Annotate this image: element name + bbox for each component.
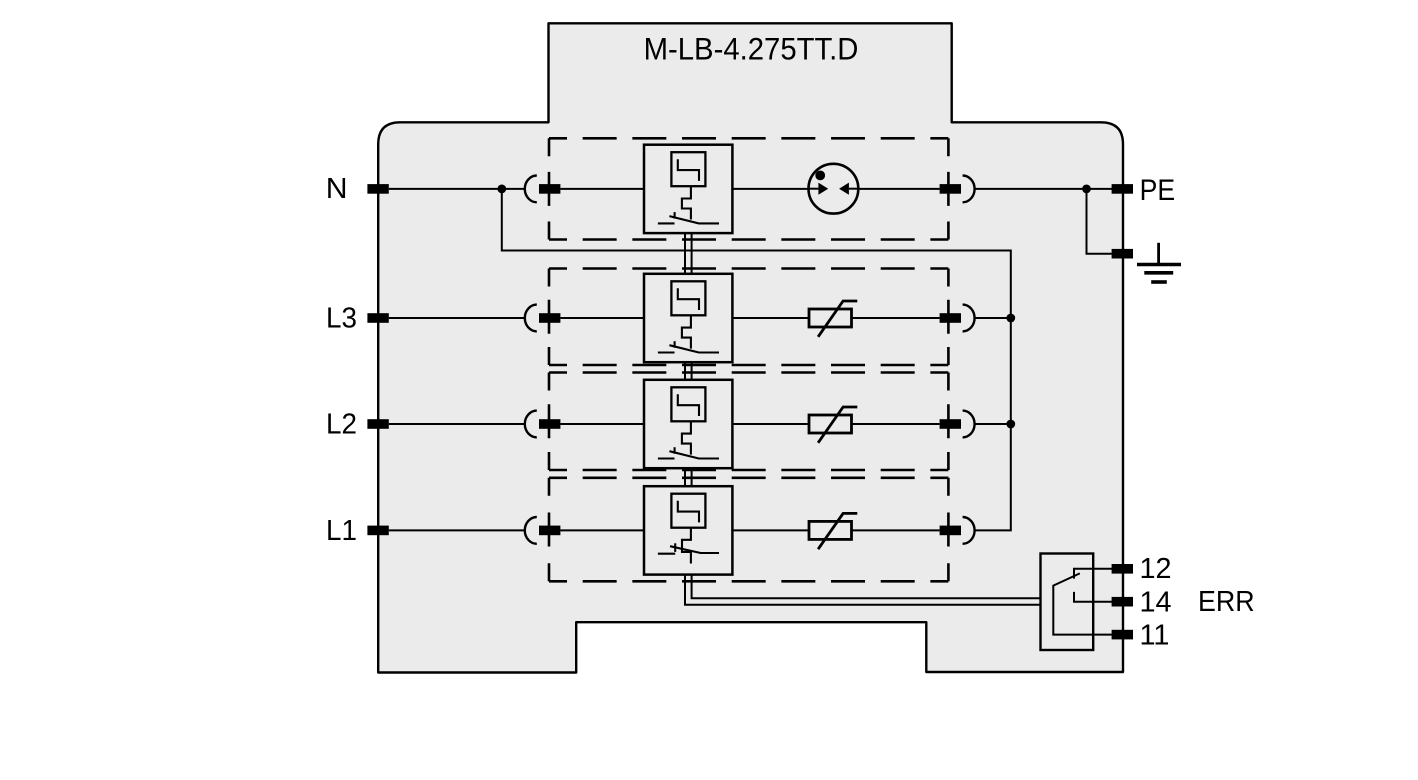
node N-bus junction	[497, 185, 506, 194]
terminal earth	[1112, 249, 1133, 259]
svg-text:L1: L1	[326, 514, 357, 547]
svg-text:14: 14	[1140, 586, 1172, 618]
svg-text:L3: L3	[326, 301, 357, 334]
terminal L3 (device left)	[367, 313, 388, 323]
surge arrester module F1 (N row) with thermal disconnector	[644, 145, 732, 233]
disconnect plug arcs L2 row	[525, 411, 537, 438]
terminal dashed-box left L1	[539, 526, 560, 536]
device body outline M-LB-4.275TT.D module	[378, 23, 1123, 672]
svg-text:PE: PE	[1140, 172, 1176, 206]
gas discharge tube (spark gap) N row	[809, 164, 859, 214]
svg-text:ERR: ERR	[1198, 585, 1255, 617]
svg-text:12: 12	[1140, 553, 1172, 585]
surge arrester module F2 (L3 row) with thermal disconnector	[644, 274, 732, 362]
surge arrester module F3 (L2 row) with thermal disconnector	[644, 380, 732, 468]
node L2 bus junction	[1006, 420, 1015, 429]
wire L3 row	[389, 317, 525, 319]
surge arrester module F4 (L1 row) with thermal disconnector	[644, 486, 732, 574]
varistor L3 row	[809, 301, 857, 337]
changeover contact arm and common 11	[1053, 573, 1112, 634]
terminal dashed-box left L3	[539, 313, 560, 323]
disconnect plug arcs N row	[525, 176, 537, 203]
disconnect plug arcs L3 row	[525, 305, 537, 332]
wire PE junction down to earth terminal	[1087, 189, 1112, 254]
terminal dashed-box right L1	[940, 526, 961, 536]
wire L3 arc to bus	[975, 317, 1010, 319]
wire N row	[389, 188, 525, 190]
terminal dashed-box left N	[539, 184, 560, 194]
ground symbol (earth)	[1137, 243, 1181, 282]
wire contact 14 with make-contact hook	[1074, 592, 1113, 602]
terminal 11	[1112, 630, 1133, 640]
wire L1 row	[389, 529, 525, 531]
svg-text:L2: L2	[326, 407, 357, 440]
terminal PE	[1112, 184, 1133, 194]
terminal 12	[1112, 564, 1133, 574]
varistor L2 row	[809, 407, 857, 443]
dashed enclosure boxes for protection stages	[549, 138, 948, 239]
terminal dashed-box right L2	[940, 419, 961, 429]
svg-text:M-LB-4.275TT.D: M-LB-4.275TT.D	[644, 33, 859, 67]
terminal L2 (device left)	[367, 419, 388, 429]
terminal N (device left)	[367, 184, 388, 194]
terminal dashed-box right L3	[940, 313, 961, 323]
terminal dashed-box right N	[940, 184, 961, 194]
mechanical linkage L1 module to ERR contact	[692, 575, 1041, 599]
terminal dashed-box left L2	[539, 419, 560, 429]
node PE junction	[1082, 185, 1091, 194]
node L3 bus junction	[1006, 314, 1015, 323]
svg-text:11: 11	[1140, 619, 1170, 651]
wire L2 row	[389, 423, 525, 425]
svg-text:N: N	[326, 173, 348, 205]
wire L2 arc to bus	[975, 423, 1010, 425]
terminal L1 (device left)	[367, 526, 388, 536]
terminal 14	[1112, 597, 1133, 607]
varistor L1 row	[809, 513, 857, 549]
ERR remote signalling changeover contact box	[1041, 554, 1094, 651]
mechanical linkage between modules	[684, 233, 686, 275]
wire contact 12	[1074, 569, 1113, 579]
disconnect plug arcs L1 row	[525, 517, 537, 544]
wire N junction to bus and vertical bus to L1	[502, 189, 1011, 531]
